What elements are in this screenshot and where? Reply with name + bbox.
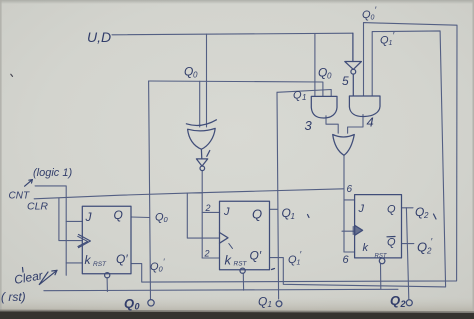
speck top left <box>11 74 13 76</box>
tick below FF2 Q' stub <box>272 269 275 270</box>
flip-flop U1 clock triangle <box>79 235 91 248</box>
wire FF1 K stub <box>66 262 82 264</box>
svg-text:6: 6 <box>347 184 353 195</box>
svg-text:4: 4 <box>367 115 374 130</box>
photo dark bottom edge <box>0 311 474 319</box>
svg-text:RST: RST <box>93 261 107 268</box>
wire Q0' route: FF1 Q' to bottom, right side, top rail, down to AND gate 4 <box>131 23 457 283</box>
wire FF2 J stub <box>202 211 219 213</box>
XOR gate 1 body <box>188 128 216 149</box>
wire FF1 RST drop <box>106 278 108 292</box>
svg-text:Q: Q <box>318 66 327 80</box>
svg-text:J: J <box>85 210 93 224</box>
svg-text:( rst): ( rst) <box>1 290 26 304</box>
svg-text:1: 1 <box>302 93 306 102</box>
apostrophe above Clear <box>22 268 25 273</box>
svg-text:RST: RST <box>375 254 388 260</box>
svg-text:Q: Q <box>258 295 267 309</box>
arrow from CNT to logic 1 line <box>25 180 33 187</box>
wire Q2 vertical to terminal <box>406 208 408 299</box>
svg-text:1: 1 <box>389 40 393 47</box>
svg-text:2: 2 <box>400 299 406 309</box>
svg-text:Q: Q <box>114 208 123 222</box>
AND gate 3 body <box>311 96 337 118</box>
inverter 5 input wire <box>352 33 354 61</box>
svg-text:1: 1 <box>268 300 272 309</box>
svg-text:2: 2 <box>426 247 432 256</box>
wire logic 1 line to FF1 J and K <box>35 186 66 275</box>
AND gate 4 body <box>349 96 380 117</box>
wire FF2 Q output stub <box>270 208 278 210</box>
XOR gate 1 output stub <box>200 149 202 159</box>
svg-text:U,D: U,D <box>87 29 111 45</box>
flip-flop U3 RST pin bubble <box>379 258 385 264</box>
svg-text:Q: Q <box>387 204 396 216</box>
wire FF3 clock stub <box>342 230 355 232</box>
node Q1 output terminal <box>276 301 282 307</box>
wire jog to FF2 clock <box>187 193 219 238</box>
wire Q1' route: FF2 Q' to bottom, right side, inner top rail, down to AND gate 4 <box>270 31 446 287</box>
svg-text:2: 2 <box>423 211 429 220</box>
wire inverter 1 output down to FF2 J/K <box>201 170 203 258</box>
wire Q0 feedback horizontal <box>149 81 323 96</box>
flip-flop U2 box <box>220 201 270 269</box>
wire FF3 K stub <box>344 251 355 253</box>
svg-text:Q: Q <box>184 65 193 79</box>
wire FF3 Q output stub <box>402 207 414 209</box>
svg-text:(logic 1): (logic 1) <box>33 167 72 179</box>
svg-text:0: 0 <box>371 15 375 22</box>
svg-text:Q′: Q′ <box>116 252 128 266</box>
svg-text:Q: Q <box>252 207 262 222</box>
inverter 5 output wire <box>352 74 354 96</box>
svg-text:Q: Q <box>124 296 134 311</box>
svg-text:0: 0 <box>193 71 198 80</box>
wire U/D drop to XOR gate 1 <box>206 34 208 127</box>
XOR gate 1 input curve <box>186 120 216 126</box>
inverter after XOR gate 1 bubble <box>200 166 205 171</box>
wire clear line <box>44 289 398 290</box>
svg-text:Q: Q <box>387 237 396 249</box>
inverter 5 triangle <box>345 62 362 70</box>
wire U/D drop to AND gate 3 <box>314 34 316 97</box>
wire FF2 K stub <box>202 257 219 259</box>
wire Q0 into XOR gate 1 <box>199 81 201 127</box>
wire AND gate 3 output to OR input <box>326 116 338 133</box>
arrow from Clear to clear line <box>39 270 57 285</box>
svg-text:Q: Q <box>417 240 427 255</box>
comma after Q1 output label <box>308 215 310 218</box>
node Q0 output terminal <box>148 300 154 306</box>
wire FF3 J stub <box>344 199 355 201</box>
flip-flop U3 Qbar overbar <box>387 236 395 238</box>
svg-text:1: 1 <box>297 260 301 267</box>
flip-flop U2 RST pin bubble <box>240 268 245 273</box>
svg-text:k: k <box>363 242 369 254</box>
svg-text:Q′: Q′ <box>250 249 262 263</box>
wire FF3 Q' output stub <box>402 243 414 245</box>
flip-flop U1 RST pin bubble <box>105 273 110 278</box>
wire Q1 long vertical to terminal <box>277 92 279 299</box>
inverter after XOR gate 1 triangle <box>196 159 207 166</box>
wire FF1 J stub <box>66 220 82 222</box>
wire AND gate 4 output to OR input <box>348 115 363 134</box>
wire U/D rail <box>112 33 353 35</box>
flip-flop U2 clock triangle <box>220 233 229 244</box>
svg-text:RST: RST <box>234 261 248 268</box>
wire Q1 rail to AND gate 3 <box>277 90 331 97</box>
OR gate body <box>333 135 355 156</box>
svg-text:Q: Q <box>293 90 302 102</box>
svg-text:k: k <box>85 253 92 267</box>
svg-text:J: J <box>358 203 365 215</box>
wire FF2 RST drop <box>242 273 244 290</box>
wire OR output down to FF3 clock and J/K <box>343 155 345 252</box>
svg-text:0: 0 <box>135 302 140 312</box>
inverter 5 bubble <box>351 69 356 74</box>
flip-flop U3 box <box>355 195 402 258</box>
wire CNT/CLR rail across <box>34 189 343 199</box>
svg-text:Q: Q <box>415 205 424 219</box>
wire Q0 long vertical to terminal <box>149 81 151 299</box>
flip-flop U3 clock triangle <box>355 225 363 235</box>
svg-text:2: 2 <box>204 249 210 259</box>
wire CNT drop to FF1 clock <box>59 198 83 241</box>
node Q2 output terminal <box>406 300 412 306</box>
svg-text:0: 0 <box>327 72 332 81</box>
wire FF3 RST drop <box>380 264 382 289</box>
svg-text:5: 5 <box>342 74 349 88</box>
svg-text:J: J <box>223 206 230 218</box>
svg-text:1: 1 <box>291 212 295 221</box>
comma after Q2 output label <box>434 214 437 219</box>
gate 1 label tick <box>207 151 210 157</box>
svg-text:3: 3 <box>305 118 313 133</box>
svg-text:CLR: CLR <box>27 201 48 213</box>
flip-flop U1 box <box>82 206 131 273</box>
svg-text:6: 6 <box>343 254 350 266</box>
svg-text:Q: Q <box>390 293 400 308</box>
wire FF1 Q output stub <box>131 216 150 219</box>
svg-text:Q: Q <box>282 206 291 220</box>
svg-text:2: 2 <box>205 203 211 213</box>
